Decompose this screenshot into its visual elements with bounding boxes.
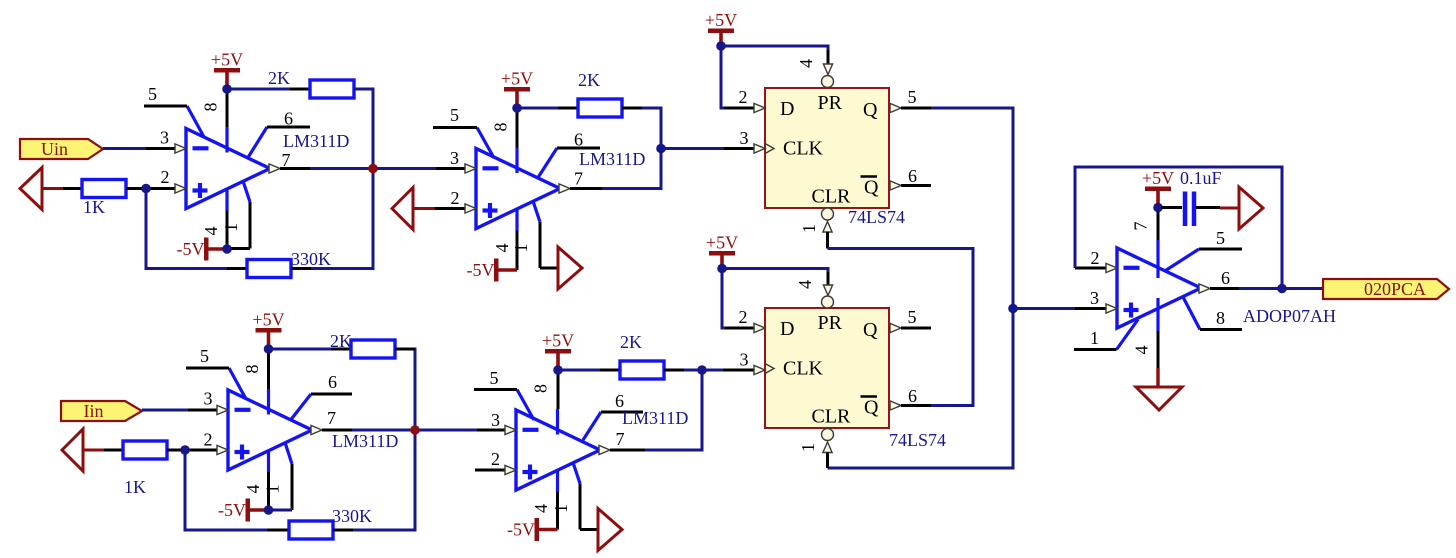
svg-text:020PCA: 020PCA <box>1364 279 1426 299</box>
svg-text:Iin: Iin <box>84 401 104 421</box>
port arrow P6 (right) from cap <box>1239 187 1263 229</box>
svg-text:2K: 2K <box>578 70 600 90</box>
resistor R2 330K <box>227 249 331 278</box>
svg-text:+5V: +5V <box>501 69 533 89</box>
U5 pin 4 <box>1132 331 1159 368</box>
op-amp U1 LM311D body <box>186 106 270 211</box>
U3 pin 7 output <box>311 408 352 435</box>
svg-text:7: 7 <box>574 169 583 189</box>
svg-text:PR: PR <box>818 312 843 334</box>
wire U1 pin2 node down to 330K <box>146 189 227 269</box>
svg-text:PR: PR <box>818 92 843 114</box>
junction U1 output (4-way) <box>368 164 378 174</box>
svg-text:1: 1 <box>221 223 241 232</box>
port arrow P4 (right) from U2 pin1 <box>558 247 582 289</box>
svg-text:4: 4 <box>201 227 221 236</box>
resistor R7 2K <box>330 331 415 358</box>
-5V power U1 <box>177 238 228 261</box>
FF2 pin 3 CLK <box>723 350 765 375</box>
svg-text:6: 6 <box>328 372 337 392</box>
junction U2 output node <box>656 144 666 154</box>
resistor R5 1K <box>104 441 185 497</box>
U2 pin 3 <box>436 148 476 173</box>
port arrow P5 (right) from U4 pin1 <box>598 509 622 551</box>
wire 2K to output vertical <box>645 370 702 450</box>
svg-text:8: 8 <box>242 365 262 374</box>
wire U1 output to U2.3 <box>310 167 436 170</box>
svg-text:2: 2 <box>739 307 748 327</box>
svg-text:5: 5 <box>908 87 917 107</box>
wire U2 output to FF1 CLK <box>661 147 724 150</box>
svg-text:Q: Q <box>864 397 879 419</box>
svg-text:-5V: -5V <box>507 520 535 540</box>
svg-text:D: D <box>780 318 794 340</box>
svg-text:LM311D: LM311D <box>579 149 645 169</box>
FF2 pin 2 D <box>723 307 765 333</box>
svg-text:5: 5 <box>490 368 499 388</box>
svg-text:2: 2 <box>204 430 213 450</box>
+5V power U5 <box>1142 168 1174 208</box>
svg-text:1: 1 <box>799 224 819 233</box>
wire U2 +5V node to 2K <box>517 107 558 110</box>
svg-text:CLK: CLK <box>783 358 824 380</box>
U5 pin 3 <box>1075 288 1117 313</box>
wire U5 feedback pin2 loop <box>1075 167 1282 289</box>
resistor R8 2K <box>600 332 684 379</box>
svg-text:330K: 330K <box>332 506 372 526</box>
U3 pin 2 <box>185 430 228 455</box>
svg-text:LM311D: LM311D <box>622 408 688 428</box>
U4 pin 3 <box>477 410 516 435</box>
svg-text:+5V: +5V <box>706 233 738 253</box>
FF1 pin 1 CLR <box>799 208 834 249</box>
svg-text:Q: Q <box>863 319 878 341</box>
svg-text:3: 3 <box>491 410 500 430</box>
wire 330K to feedback vertical <box>353 349 415 530</box>
U3 pin 3 <box>188 389 228 415</box>
svg-text:5: 5 <box>450 105 459 125</box>
wire FF1 Q to main vertical <box>828 108 1014 468</box>
junction U3 pin8/+5V/2K <box>264 344 274 354</box>
junction U1 -5V/pin4/pin1 <box>222 244 232 254</box>
-5V power U4 <box>507 518 558 541</box>
svg-text:2K: 2K <box>620 332 642 352</box>
svg-text:8: 8 <box>531 384 551 393</box>
junction U3 pin2/R5/feedback <box>180 445 190 455</box>
svg-text:3: 3 <box>740 350 749 370</box>
U2 pin 1 <box>511 222 558 268</box>
flip-flop FF1 74LS74 body <box>765 88 889 208</box>
U2 pin 8 <box>491 108 518 148</box>
U3 pin 6 <box>311 372 352 394</box>
svg-text:1: 1 <box>511 244 531 253</box>
junction U4 output node <box>697 365 707 375</box>
svg-text:+5V: +5V <box>1142 168 1174 188</box>
svg-text:5: 5 <box>148 84 157 104</box>
wire FF1 +5V to PR <box>721 46 828 50</box>
wire +5V node to 2K and down to output <box>227 88 290 91</box>
FF1 pin 4 PR <box>796 47 834 88</box>
svg-text:5: 5 <box>200 346 209 366</box>
U3 pin 8 <box>242 349 269 389</box>
wire U3 +5V node to 2K and down <box>269 348 332 351</box>
U1 pin 3 <box>146 128 186 154</box>
svg-text:6: 6 <box>284 109 293 129</box>
-5V power U3 <box>218 499 269 522</box>
svg-text:4: 4 <box>796 59 816 68</box>
svg-text:LM311D: LM311D <box>283 131 349 151</box>
svg-text:1: 1 <box>551 504 571 513</box>
U4 pin 8 <box>531 370 559 409</box>
svg-text:8: 8 <box>491 123 511 132</box>
wire FF2 +5V to PR <box>722 269 828 273</box>
junction U2 pin8/+5V/2K <box>512 103 522 113</box>
svg-text:-5V: -5V <box>177 239 205 259</box>
U4 pin 1 <box>551 484 598 530</box>
svg-text:-5V: -5V <box>467 260 495 280</box>
FF1 pin 5 Q <box>890 87 931 113</box>
wire U5 +in from main node <box>1013 307 1075 310</box>
junction U5 output/feedback <box>1277 284 1287 294</box>
svg-text:2: 2 <box>1091 248 1100 268</box>
svg-text:CLK: CLK <box>783 138 824 160</box>
svg-text:1K: 1K <box>83 197 105 217</box>
svg-text:3: 3 <box>450 148 459 168</box>
-5V power U2 <box>467 259 518 282</box>
U3 pin 4 <box>243 472 269 510</box>
wire cap to port <box>1220 207 1239 210</box>
svg-text:+5V: +5V <box>211 50 243 70</box>
svg-text:3: 3 <box>1090 288 1099 308</box>
U4 pin 7 output <box>599 429 645 455</box>
svg-text:0.1uF: 0.1uF <box>1180 168 1222 188</box>
op-amp U2 LM311D body <box>476 128 560 231</box>
svg-text:8: 8 <box>201 103 221 112</box>
junction U1 pin2/R1/feedback <box>141 184 151 194</box>
svg-text:2: 2 <box>161 167 170 187</box>
svg-text:CLR: CLR <box>812 186 852 208</box>
svg-text:-5V: -5V <box>218 500 246 520</box>
svg-text:2K: 2K <box>268 68 290 88</box>
U5 pin 8 <box>1200 308 1242 330</box>
U2 pin 6 <box>557 130 600 150</box>
wire Iin to U3.3 <box>142 409 188 412</box>
junction U3 -5V/pin4/pin1 <box>264 505 274 515</box>
+5V power U4 <box>542 331 574 371</box>
svg-text:6: 6 <box>1221 268 1230 288</box>
U5 pin 6 output <box>1199 268 1239 293</box>
svg-text:CLR: CLR <box>812 406 852 428</box>
svg-text:6: 6 <box>908 166 917 186</box>
svg-text:4: 4 <box>531 504 551 513</box>
svg-text:2: 2 <box>491 449 500 469</box>
svg-text:LM311D: LM311D <box>332 431 398 451</box>
wire U4 output to FF2 CLK <box>702 369 723 372</box>
wire FF2 +5V to D <box>722 269 725 329</box>
svg-text:1K: 1K <box>124 477 146 497</box>
U1 pin 2 <box>146 167 186 193</box>
U4 pin 4 <box>531 492 558 530</box>
wire 2K to output vertical <box>602 108 661 189</box>
svg-text:Uin: Uin <box>41 139 68 159</box>
op-amp U5 ADOP07AH body <box>1117 240 1202 350</box>
port arrow P1 (left) <box>20 168 63 210</box>
U4 pin 5 <box>474 368 517 390</box>
svg-text:ADOP07AH: ADOP07AH <box>1243 306 1336 326</box>
U2 pin 2 <box>435 188 476 213</box>
svg-text:7: 7 <box>1131 222 1151 231</box>
wire U4 +5V node to 2K <box>558 369 600 372</box>
+5V power U1 <box>211 50 243 90</box>
svg-text:8: 8 <box>1216 308 1225 328</box>
U1 pin 6 <box>267 109 310 129</box>
op-amp U3 LM311D body <box>228 368 312 472</box>
U5 pin 2 <box>1075 248 1117 273</box>
resistor R3 2K <box>268 68 373 98</box>
+5V power U3 <box>252 310 284 350</box>
FF1 pin 3 CLK <box>724 128 765 153</box>
ground symbol U5 pin4 <box>1136 368 1182 410</box>
FF2 pin 6 Qbar <box>890 386 931 410</box>
junction U1 pin8/+5V/2K <box>222 84 232 94</box>
U2 pin 5 <box>433 105 477 128</box>
FF1 pin 6 Qbar <box>890 166 931 190</box>
op-amp U4 LM311D body <box>516 390 601 493</box>
flag Uin <box>20 139 103 159</box>
U1 pin 4 <box>201 211 227 250</box>
+5V power FF2 <box>706 233 738 269</box>
flip-flop FF2 74LS74 body <box>765 308 889 428</box>
U1 pin 1 <box>221 202 250 249</box>
svg-text:+5V: +5V <box>252 310 284 330</box>
U1 pin 8 <box>201 89 228 127</box>
svg-text:3: 3 <box>740 128 749 148</box>
svg-text:1: 1 <box>1090 328 1099 348</box>
U5 pin 7 <box>1131 209 1159 240</box>
junction U4 pin8/+5V/2K <box>553 365 563 375</box>
junction U3 output (4-way) <box>410 425 420 435</box>
U2 pin 7 output <box>559 169 602 194</box>
junction FF2 +5V node <box>717 264 727 274</box>
svg-text:74LS74: 74LS74 <box>889 430 946 450</box>
svg-text:4: 4 <box>1132 346 1152 355</box>
svg-text:4: 4 <box>795 280 815 289</box>
wire Uin to U1.3 <box>103 147 146 150</box>
svg-text:Q: Q <box>863 99 878 121</box>
svg-text:1: 1 <box>798 443 818 452</box>
+5V power U2 <box>501 69 533 109</box>
resistor R1 1K <box>63 180 146 218</box>
svg-text:330K: 330K <box>291 249 331 269</box>
port arrow P3 (left) <box>62 429 104 471</box>
svg-text:74LS74: 74LS74 <box>848 207 905 227</box>
svg-text:7: 7 <box>282 150 291 170</box>
U3 pin 1 <box>263 464 293 510</box>
svg-text:D: D <box>780 98 794 120</box>
capacitor C1 0.1uF <box>1161 168 1222 226</box>
flag 020PCA <box>1323 279 1449 299</box>
svg-text:6: 6 <box>574 130 583 150</box>
wire FF1 CLR to FF2 Qbar <box>828 249 974 406</box>
U1 pin 5 <box>144 84 187 106</box>
svg-text:2: 2 <box>451 188 460 208</box>
U4 pin 6 <box>601 391 643 412</box>
wire U3 pin2 node down to 330K <box>185 450 267 530</box>
svg-text:2K: 2K <box>330 331 352 351</box>
U4 pin 2 <box>475 449 516 475</box>
svg-text:3: 3 <box>160 128 169 148</box>
wire FF1 +5V to D <box>721 46 724 108</box>
svg-text:5: 5 <box>1216 228 1225 248</box>
U5 pin 1 <box>1074 328 1117 350</box>
svg-text:4: 4 <box>492 244 512 253</box>
wire U5 output to flag <box>1239 287 1323 290</box>
flag Iin <box>61 401 142 421</box>
FF1 pin 2 D <box>722 87 765 113</box>
svg-text:2: 2 <box>739 87 748 107</box>
junction FF1 +5V node <box>716 41 726 51</box>
svg-text:7: 7 <box>327 408 336 428</box>
svg-text:6: 6 <box>908 386 917 406</box>
port arrow P2 (left) <box>392 188 435 230</box>
svg-text:1: 1 <box>263 485 283 494</box>
svg-text:5: 5 <box>908 307 917 327</box>
U5 pin 5 <box>1199 228 1242 249</box>
wire U3 output to U4.3 <box>352 429 477 432</box>
svg-text:3: 3 <box>204 389 213 409</box>
wire 330K to feedback vertical <box>311 169 373 269</box>
+5V power FF1 <box>705 10 737 46</box>
svg-text:+5V: +5V <box>542 331 574 351</box>
svg-text:7: 7 <box>616 429 625 449</box>
FF2 pin 1 CLR <box>798 429 834 469</box>
junction main node to U5 +in <box>1008 304 1018 314</box>
junction U5 pin7/+5V/cap <box>1153 203 1163 213</box>
resistor R6 330K <box>267 506 372 539</box>
resistor R4 2K <box>558 70 642 117</box>
svg-text:+5V: +5V <box>705 10 737 30</box>
svg-text:4: 4 <box>243 485 263 494</box>
U3 pin 5 <box>186 346 229 368</box>
U1 pin 7 output <box>269 150 310 173</box>
FF2 pin 5 Q <box>890 307 931 333</box>
svg-text:Q: Q <box>864 177 879 199</box>
U2 pin 4 <box>492 231 517 271</box>
FF2 pin 4 PR <box>795 269 834 308</box>
